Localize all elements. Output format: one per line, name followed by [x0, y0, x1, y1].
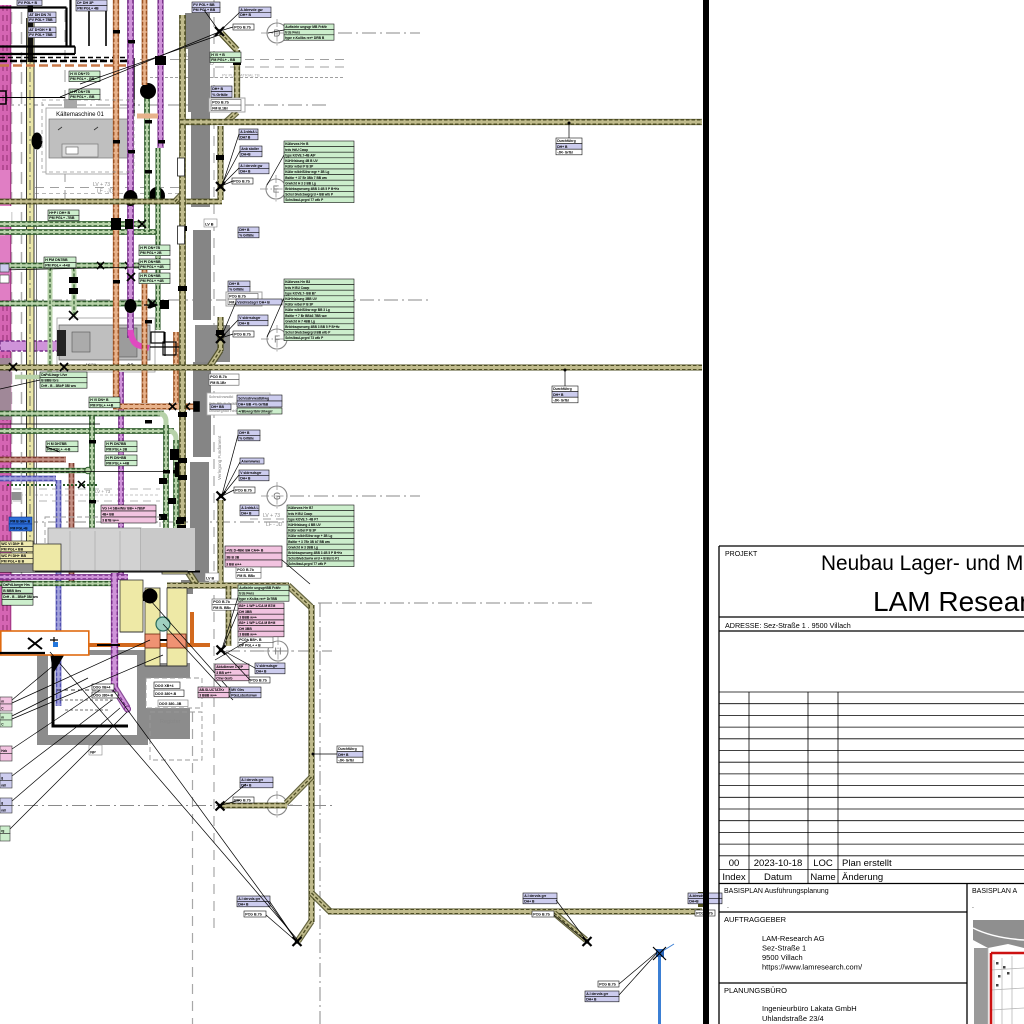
svg-text:ADRESSE: Sez-Straße 1 . 9500 V: ADRESSE: Sez-Straße 1 . 9500 Villach [725, 621, 851, 630]
label H Abluft pink [215, 664, 249, 681]
svg-text:DH+ B: DH+ B [240, 13, 251, 17]
svg-text:Külbrvws Hrr B: Külbrvws Hrr B [285, 142, 309, 146]
label green 455b [105, 455, 137, 466]
svg-text:Grwlcht H 3 3 BB Lg: Grwlcht H 3 3 BB Lg [285, 181, 316, 185]
svg-text:LF - JD: LF - JD [97, 189, 114, 195]
svg-text:Grwlcht H 7 4BB Lg: Grwlcht H 7 4BB Lg [285, 319, 315, 323]
black arrowhead on leader y=305 [144, 302, 157, 308]
leader node bl 2 [266, 915, 296, 941]
axis dash-dot y=522 [0, 521, 350, 523]
svg-text:BASISPLAN Ausführungsplanung: BASISPLAN Ausführungsplanung [724, 888, 829, 895]
label F PCG pair [228, 294, 258, 305]
svg-text:DOG XB+4: DOG XB+4 [155, 684, 173, 688]
black valve cluster right of machines [159, 300, 184, 520]
svg-text:PM PGL+ B B: PM PGL+ B B [1, 559, 24, 563]
svg-text:B3+ 1 WP L/CA M B+M: B3+ 1 WP L/CA M B+M [239, 621, 275, 625]
svg-text:FM B. BBc: FM B. BBc [213, 606, 231, 610]
svg-text:DH+ B: DH+ B [256, 669, 267, 673]
equipment dashed outline upper [45, 517, 160, 555]
svg-text:DOG 380--3B: DOG 380--3B [159, 702, 182, 706]
svg-text:DH+ B: DH+ B [240, 169, 251, 173]
svg-text:A.1rdrbA L: A.1rdrbA L [240, 130, 257, 134]
svg-text:PCG B.7b: PCG B.7b [213, 600, 230, 604]
svg-text:type e.Kullbs rer+ DRB B: type e.Kullbs rer+ DRB B [285, 36, 325, 40]
wall segment 2 [188, 49, 210, 112]
label G Abhaenge [239, 470, 269, 481]
label F Kaltwasser [236, 299, 282, 305]
svg-text:m: m [1, 716, 4, 720]
svg-text:rall: rall [1, 784, 6, 788]
olive stub S4 below G [218, 500, 223, 583]
leader H4 [222, 650, 250, 680]
svg-text:type e.KsIbs rer+ Dr7BB: type e.KsIbs rer+ Dr7BB [239, 597, 277, 601]
svg-text:type KOVE.7-4B AIP: type KOVE.7-4B AIP [285, 153, 316, 157]
vertical tab box [178, 226, 185, 244]
svg-text:PCG B.7b: PCG B.7b [245, 913, 262, 917]
label F DN 1 [228, 281, 250, 292]
leader durchfuehrung right [314, 753, 337, 755]
orange riser x=144 top [142, 0, 147, 85]
wall segment 5 [193, 362, 211, 457]
leader durchfuehrung top [568, 124, 570, 138]
label F table [284, 279, 354, 341]
black connector lines bottom equipment [97, 600, 167, 645]
label E Rohrleitung [239, 129, 258, 140]
label DN gefaelle E [211, 86, 232, 97]
svg-text:Kältemaschine 01: Kältemaschine 01 [56, 112, 104, 118]
X flange on run B left [9, 363, 68, 371]
label H pink rows 2 [238, 620, 284, 637]
svg-text:Durchführg: Durchführg [557, 139, 575, 143]
svg-text:DOG XB+4: DOG XB+4 [93, 686, 110, 690]
svg-text:LV B: LV B [205, 223, 214, 227]
svg-text:Clrw Gsrb: Clrw Gsrb [216, 676, 232, 680]
green elbow down x=172 [170, 431, 176, 551]
black X flange on y=303 [148, 299, 157, 308]
leader D3 [60, 32, 219, 97]
grid bubble D [261, 19, 293, 47]
olive diagonal C to riser [288, 586, 311, 608]
leader green363 [0, 380, 40, 389]
svg-text:V sldrrsdsgrr: V sldrrsdsgrr [256, 664, 278, 668]
svg-text:trds Fwrs: trds Fwrs [285, 30, 300, 34]
svg-text:Külbr wlblrlSilrw wgr + 3B Lg: Külbr wlblrlSilrw wgr + 3B Lg [285, 170, 329, 174]
green run y=583.5 [0, 581, 112, 586]
label G pink VE [225, 546, 282, 567]
svg-text:DrH - B - 3BbP 3Bl ww: DrH - B - 3BbP 3Bl ww [41, 384, 76, 388]
svg-text:DH+ B: DH+ B [240, 476, 251, 480]
leader D1 [220, 27, 233, 31]
label PCG top 1 [233, 24, 254, 30]
grid bubble I [261, 791, 293, 819]
leader F3 [221, 334, 233, 338]
magenta band bright segment [0, 170, 10, 300]
svg-text:DrH - B - 3BbP 3Bl ww: DrH - B - 3BbP 3Bl ww [3, 595, 38, 599]
svg-text:H+P l DH+ B: H+P l DH+ B [49, 211, 70, 215]
PCG FM white pair low [212, 599, 240, 610]
svg-text:PCG B.7b: PCG B.7b [212, 101, 229, 105]
yellow box mid [120, 580, 143, 632]
wall segment 6 [190, 462, 209, 582]
wall segment 4 [193, 230, 211, 320]
svg-text:rg: rg [1, 829, 4, 833]
svg-text:9500 Villach: 9500 Villach [762, 953, 803, 962]
svg-text:Ingenieurbüro Lakata GmbH: Ingenieurbüro Lakata GmbH [762, 1004, 857, 1013]
dark green dotted run y=485 [7, 484, 98, 486]
svg-text:Datum: Datum [764, 872, 792, 883]
svg-text:% Grfälle: % Grfälle [239, 233, 254, 237]
svg-text:3 BBB w++: 3 BBB w++ [199, 693, 217, 697]
svg-text:B3+ 1 WP L/CA M B7M: B3+ 1 WP L/CA M B7M [239, 604, 275, 608]
purple riser x=130 [128, 0, 134, 338]
arrow dots durchfuehrung [568, 122, 571, 125]
site map thumbnail [973, 920, 1024, 1024]
leader pit 5 [12, 708, 120, 801]
svg-text:Bsltbr + 7 Br BBb3 7BB ww: Bsltbr + 7 Br BBb3 7BB ww [285, 314, 327, 318]
svg-text:FM B.1Br: FM B.1Br [212, 106, 228, 110]
label G DN2 [238, 430, 260, 441]
label green row4 [139, 273, 170, 284]
green pump blob [140, 83, 156, 99]
brown run y=459 [0, 457, 66, 462]
leader green441 [46, 447, 60, 452]
black frame connector [74, 47, 76, 55]
leader pit 7 [150, 600, 230, 690]
svg-text:PCG B.7b: PCG B.7b [229, 295, 246, 299]
purple riser x=161 top [158, 0, 163, 148]
svg-text:Register: Register [160, 719, 181, 725]
label G Rohrleit [240, 505, 259, 516]
bottom equipment gray housing [48, 528, 141, 571]
level dashed line top 3 [150, 77, 345, 79]
olive diagonal top from node [221, 33, 236, 49]
svg-text:LOC: LOC [813, 858, 833, 869]
black dotted pipe y=61 [0, 60, 131, 63]
level dashed line top 2 [200, 66, 345, 68]
svg-text:E: E [273, 185, 280, 196]
leader node I 1 [221, 784, 246, 805]
svg-text:SchsIbsuLprgrd 73 wlb P: SchsIbsuLprgrd 73 wlb P [285, 336, 324, 340]
drawing sheet heavy border [703, 0, 709, 1024]
NP white label [89, 745, 102, 755]
left yellow label 1 [0, 541, 33, 552]
magenta elbow into machine 03 [131, 330, 150, 348]
svg-text:-JR- Grfäl: -JR- Grfäl [553, 398, 569, 402]
svg-text:3 BBB w++: 3 BBB w++ [239, 632, 257, 636]
left bracket label 1 [0, 264, 9, 272]
svg-text:AT D+DH + B: AT D+DH + B [29, 28, 52, 32]
leader E4 [221, 181, 233, 186]
svg-text:trds H BU Cawp: trds H BU Cawp [288, 512, 312, 516]
purple run y=577 [0, 575, 128, 580]
svg-text:Anb sbdler: Anb sbdler [241, 147, 259, 151]
olive riser fittings low [177, 517, 186, 530]
black fittings on green loop [69, 277, 78, 320]
label top far left [17, 0, 42, 6]
leader E2 [221, 151, 240, 186]
blue node [656, 949, 664, 957]
svg-text:SchsIblvdcbwrw wrd + B Bsl b P: SchsIblvdcbwrw wrd + B Bsl b P1 [288, 557, 339, 561]
level dashed lines y=187-199 [35, 187, 185, 189]
leader G2 [222, 462, 240, 496]
leader pit 1 [12, 660, 60, 700]
green pipe run y=303 [0, 301, 158, 306]
green riser x=158 low [156, 148, 160, 330]
black frame vertical x=70 [69, 0, 71, 47]
svg-text:SchsI blvdcbwgrgrd BB wlb P: SchsI blvdcbwgrgrd BB wlb P [285, 331, 331, 335]
left edge black bracket [0, 91, 65, 104]
svg-text:3B B 3B: 3B B 3B [226, 556, 240, 560]
green pipe run y=265 [0, 263, 152, 268]
green riser x=92 [90, 416, 95, 560]
level dashed line top 1 [95, 59, 345, 61]
leader node bm 1 [556, 900, 586, 940]
svg-text:3 B7B w++: 3 B7B w++ [102, 519, 119, 523]
svg-text:H PM DN7BB: H PM DN7BB [45, 258, 68, 262]
svg-text:AUFTRAGGEBER: AUFTRAGGEBER [724, 915, 787, 924]
svg-text:2023-10-18: 2023-10-18 [754, 858, 803, 869]
svg-text:NP: NP [90, 750, 96, 755]
svg-text:PCG B.7b: PCG B.7b [234, 333, 251, 337]
svg-text:VG I-4 SBwINbr BB+ +7BbP: VG I-4 SBwINbr BB+ +7BbP [102, 507, 146, 511]
svg-text:PV PLIBRATRIAL TB: PV PLIBRATRIAL TB [222, 73, 260, 78]
svg-text:.: . [727, 903, 729, 910]
vertical tab box 2 [178, 158, 185, 176]
svg-text:FM B.1Br: FM B.1Br [210, 381, 226, 385]
svg-text:PCG+ BB+- B: PCG+ BB+- B [239, 638, 262, 642]
svg-text:PROJEKT: PROJEKT [725, 551, 758, 558]
svg-text:PV PGL+ 7BB: PV PGL+ 7BB [29, 18, 53, 22]
left label lav 1 [0, 773, 12, 788]
green elbow down x=162 [160, 414, 166, 552]
connection frame right of machine03 [150, 332, 180, 356]
brown riser x=71 [69, 463, 74, 582]
label G Schacht lav [237, 395, 282, 407]
pit gray right block [148, 663, 190, 739]
label green 363 [40, 372, 87, 388]
svg-text:DaPdLbwgr Lfve: DaPdLbwgr Lfve [41, 373, 67, 377]
leader fan A [12, 640, 150, 703]
purple diagonal tip [115, 688, 128, 708]
machine01 dashed outline [42, 100, 134, 172]
svg-text:DH+ B: DH+ B [586, 997, 597, 1001]
svg-text:A.I dervds grr: A.I dervds grr [586, 992, 609, 996]
svg-text:DH 3BB: DH 3BB [239, 627, 252, 631]
pit gray surround [37, 650, 148, 745]
label H PCG small [249, 677, 270, 683]
black equipment base line [0, 571, 200, 573]
label DH DN 70 [28, 12, 56, 23]
salmon box 1 [145, 634, 160, 648]
svg-text:type KOVE.7- BB B7: type KOVE.7- BB B7 [285, 291, 316, 295]
svg-text:PM PGL+ BB: PM PGL+ BB [1, 547, 23, 551]
gray wall overlay on magenta band [0, 358, 11, 420]
revision table lines [719, 692, 1024, 884]
green run y=431 [0, 429, 174, 434]
yellow box upper right [162, 541, 188, 574]
svg-text:V sldrrsdsgrr: V sldrrsdsgrr [239, 316, 261, 320]
level dashed line mid 1 [250, 518, 332, 520]
axis dashed wall line left 1 [11, 12, 13, 580]
svg-text:% Grfälle: % Grfälle [229, 287, 244, 291]
svg-text:FM PGL+ - BB: FM PGL+ - BB [211, 58, 235, 62]
leader pit 4 [12, 700, 112, 776]
blueviolet riser x=58 [56, 480, 61, 706]
svg-text:Durchführg: Durchführg [553, 387, 571, 391]
svg-text:H Vl DN+70: H Vl DN+70 [70, 72, 89, 76]
svg-text:SchsIbsuLprgrd 77 wlb P: SchsIbsuLprgrd 77 wlb P [288, 562, 327, 566]
leader G3 [222, 475, 239, 496]
svg-text:DH+ B: DH+ B [239, 321, 250, 325]
leader H2 [222, 612, 238, 650]
purple drop x=114 [111, 573, 118, 690]
black duct top over yellow band [28, 0, 34, 62]
olive branch diagonal to I node [286, 777, 312, 803]
purple riser below machine [119, 372, 124, 580]
svg-text:DH+ B: DH+ B [239, 228, 250, 232]
verteiler dashed outline [146, 678, 202, 708]
black frame lower line [0, 53, 75, 55]
svg-text:DH7 B: DH7 B [240, 135, 251, 139]
left blue label [9, 517, 32, 531]
black blob fitting at green riser [149, 187, 165, 205]
svg-text:PV PGL+ 7BB: PV PGL+ 7BB [29, 33, 53, 37]
label Durchfuehrung right [337, 746, 363, 763]
blueviolet run y=478 [0, 476, 56, 481]
label green HVl DN 70 mid [210, 52, 241, 63]
svg-text:LV + 73: LV + 73 [263, 513, 280, 519]
purple valve blob 1 [124, 190, 138, 206]
olive run D y=911.5 [328, 909, 702, 914]
svg-text:SchsI blvdcbwgrgrd + BB wlb P: SchsI blvdcbwgrgrd + BB wlb P [285, 193, 334, 197]
yellow box right 2 [167, 588, 187, 666]
label green row3 [139, 259, 170, 270]
svg-text:B BBB Ibrs: B BBB Ibrs [41, 378, 59, 382]
leader fan D [113, 690, 296, 940]
leader D2 [220, 13, 239, 31]
left green pair 583 [2, 582, 33, 593]
svg-text:3 BB w++: 3 BB w++ [216, 671, 231, 675]
left label green 1 [0, 713, 12, 727]
svg-text:A.I dervds grr: A.I dervds grr [238, 897, 261, 901]
label G PCG FM top [209, 374, 239, 385]
hanger node D row [215, 27, 224, 36]
svg-text:Auftstrhr ungsgr MB Fräftr: Auftstrhr ungsgr MB Fräftr [285, 25, 327, 29]
svg-text:F: F [274, 335, 280, 346]
svg-text:% Grfälle: % Grfälle [212, 93, 228, 97]
svg-text:LV + 73: LV + 73 [95, 489, 111, 494]
leader D4 [80, 34, 222, 84]
label green table D [284, 24, 334, 40]
svg-text:trds H BU Cawp: trds H BU Cawp [285, 286, 309, 290]
svg-text:PM PGL+ -7BB: PM PGL+ -7BB [49, 216, 75, 220]
svg-text:FM B. BBc: FM B. BBc [237, 574, 255, 578]
svg-text:Index: Index [722, 872, 745, 883]
hanger node H row [217, 646, 226, 655]
PCG white box F [226, 292, 262, 306]
svg-text:LAM-Research AG: LAM-Research AG [762, 934, 825, 943]
svg-text:A.I dervds grr: A.I dervds grr [524, 894, 547, 898]
olive stub S1 [234, 50, 240, 112]
label blue Abh [585, 991, 619, 1002]
svg-text:H Vl + B: H Vl + B [211, 53, 225, 57]
leader top mid1 [204, 10, 219, 31]
svg-text:DH 3BB: DH 3BB [239, 610, 252, 614]
svg-text:LF - JD: LF - JD [266, 522, 283, 528]
svg-text:Durchführg: Durchführg [338, 747, 356, 751]
svg-text:H Pl DN+7B: H Pl DN+7B [140, 246, 160, 250]
label green left mid [44, 257, 76, 268]
pink VG table [101, 505, 156, 523]
hanger node bottom mid [583, 937, 592, 946]
label green 397 [89, 397, 120, 408]
svg-text:PGsLsbsrlsrww: PGsLsbsrlsrww [231, 693, 257, 697]
svg-text:Anwrwwws: Anwrwwws [241, 460, 260, 464]
green riser x=148 [145, 98, 150, 232]
olive stub S1 down diag [226, 112, 237, 122]
label E Antistatik [240, 146, 262, 157]
svg-text:DH+ B: DH+ B [557, 145, 568, 149]
pit top black edge [0, 652, 45, 654]
label green HPl DN BB [48, 210, 79, 221]
DOG label 2 [154, 690, 184, 697]
green capped run y=470 [0, 468, 87, 473]
svg-text:DH+ B: DH+ B [338, 753, 349, 757]
orange flange X fittings [169, 402, 199, 411]
svg-text:PM PGL+ -4-B: PM PGL+ -4-B [47, 447, 71, 451]
orange heat pipe y=645 [0, 643, 210, 647]
label E Abhaenge [239, 163, 269, 174]
leader fan B [12, 655, 163, 719]
svg-text:Grwlcht H 3 3BB Lg: Grwlcht H 3 3BB Lg [288, 545, 318, 549]
left bracket label 2 [0, 275, 9, 283]
orange run to wall y=406 [113, 404, 199, 409]
svg-text:PM PGL+ 3B: PM PGL+ 3B [106, 447, 127, 451]
svg-text:PV PGL+ BB: PV PGL+ BB [193, 3, 215, 7]
DOG label 3 [158, 700, 188, 707]
svg-text:H Pl DN+BB: H Pl DN+BB [106, 456, 126, 460]
svg-text:AB.SLUCTATKr: AB.SLUCTATKr [199, 688, 225, 692]
green elbow bottom left of machine03 [15, 368, 50, 377]
hanger node I row [216, 802, 225, 811]
svg-text:MV Glrs: MV Glrs [231, 688, 244, 692]
blue dot at pit corner [53, 642, 58, 647]
grid bubble F [261, 325, 293, 353]
svg-text:V sldrrsdsgrr: V sldrrsdsgrr [240, 471, 262, 475]
svg-text:LV B: LV B [206, 577, 214, 581]
label DH DN 8 [28, 27, 56, 38]
svg-text:00: 00 [729, 858, 740, 869]
wall segment top [185, 13, 210, 49]
label F PCG2 [233, 331, 254, 337]
svg-text:KüHlrlsbung 4 BB UV: KüHlrlsbung 4 BB UV [288, 523, 321, 527]
label H MV lav [230, 687, 261, 698]
svg-text:Verlegung Fundament: Verlegung Fundament [217, 435, 222, 480]
label top left pair [76, 0, 107, 11]
black frame right vertical [65, 8, 67, 47]
label E PCG [232, 178, 253, 184]
green pipe run y=224 [0, 222, 150, 227]
svg-text:4B+ BB: 4B+ BB [102, 513, 114, 517]
svg-text:DH+ B: DH+ B [239, 431, 250, 435]
svg-text:PM PGL+B: PM PGL+B [10, 527, 28, 531]
olive riser black fittings [178, 60, 241, 480]
magenta riser band left edge [0, 5, 10, 655]
grid bubble H [262, 637, 294, 665]
label H PCG DP [238, 637, 273, 648]
orange riser x=176 [174, 332, 179, 403]
olive run B y=367.5 [0, 365, 702, 370]
